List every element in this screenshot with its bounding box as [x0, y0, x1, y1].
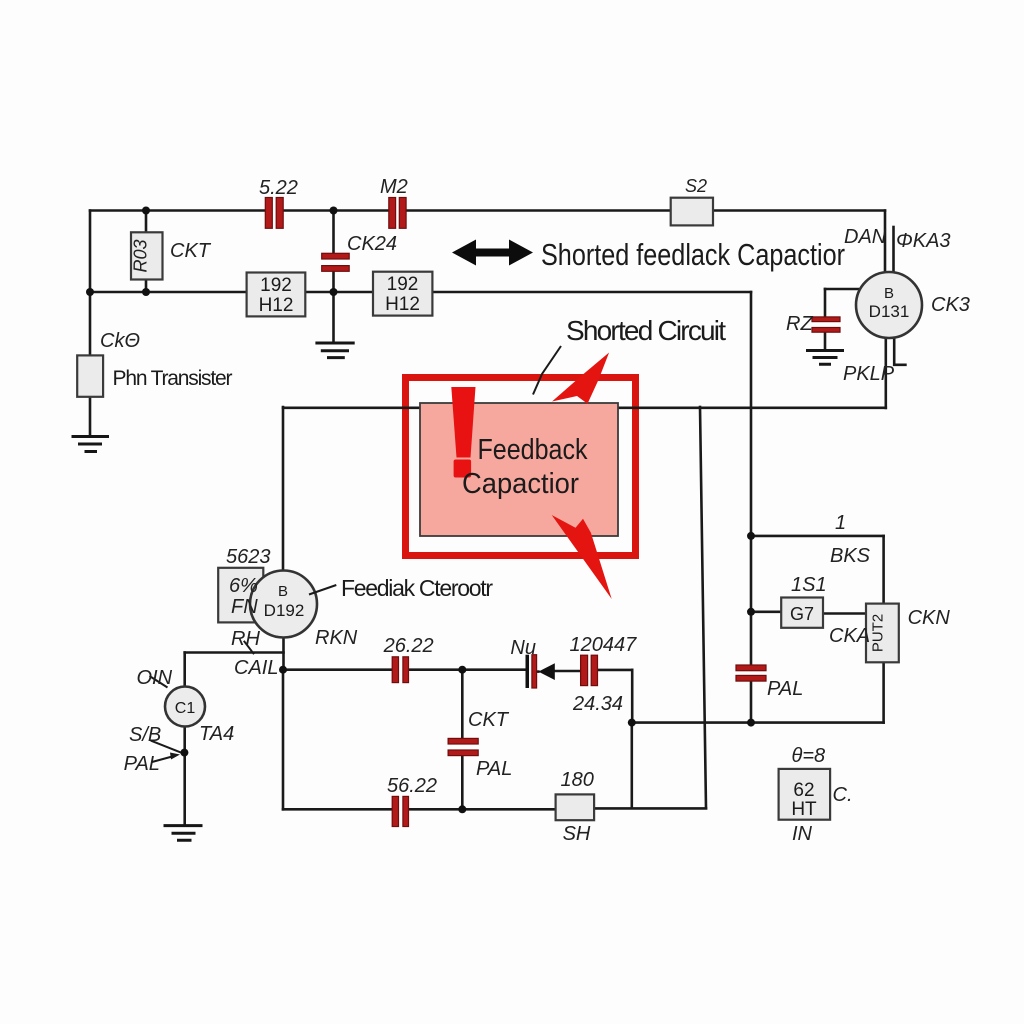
ground G4 (left branch) [164, 826, 203, 841]
GROUNDS [72, 343, 845, 840]
resistor R2 192 H12 [247, 273, 306, 317]
wire top rail left segment [90, 209, 264, 212]
wire C7 bottom lead x462 [461, 756, 464, 810]
svg-text:Feedback: Feedback [478, 434, 588, 466]
svg-text:RH: RH [231, 628, 260, 650]
svg-text:192: 192 [387, 274, 419, 295]
wire base stub U1 top [892, 227, 895, 276]
node second rail A [142, 288, 150, 296]
wire corner down to junction [631, 670, 634, 723]
wire diode output to corner [598, 669, 633, 672]
pointer line Feediak [309, 585, 336, 595]
capacitor C2 M2 [389, 198, 406, 229]
node top rail B [330, 207, 338, 215]
svg-text:S2: S2 [685, 176, 707, 196]
capacitor C4 RZ [812, 317, 840, 332]
svg-text:62: 62 [793, 780, 814, 801]
CAPACITORS (red plates) [265, 198, 840, 827]
svg-text:PKLP: PKLP [843, 363, 895, 385]
node left branch [180, 749, 188, 757]
wire left branch horizontal y652 [185, 651, 284, 654]
svg-text:M2: M2 [380, 176, 408, 198]
svg-text:PAL: PAL [767, 678, 803, 700]
box U5 PUT2 [866, 604, 899, 663]
svg-text:5.22: 5.22 [259, 177, 298, 199]
svg-text:5623: 5623 [226, 546, 271, 568]
pointer RH to wire [244, 641, 254, 654]
svg-text:1S1: 1S1 [791, 574, 827, 596]
node low rail mid [458, 666, 466, 674]
wire top rail segment 2 [282, 209, 389, 212]
svg-text:Capactior: Capactior [462, 468, 579, 500]
box U3 6% FN [218, 568, 263, 623]
wire second rail segment 3 [433, 291, 752, 294]
node bottom rail mid [458, 805, 466, 813]
box U6 62 HT [779, 769, 831, 820]
wire bottom rail segment 3 [594, 807, 706, 810]
wire RZ cap bottom lead [824, 332, 827, 350]
wire x283 vertical upper [282, 407, 285, 571]
wire cap C5 mid lead [555, 670, 581, 673]
wire top rail segment 3 [405, 209, 672, 212]
RESISTOR / IC BOXES [77, 198, 899, 821]
svg-text:D192: D192 [264, 601, 305, 620]
wire low rail segment 2 [409, 668, 463, 671]
svg-text:Nu: Nu [510, 637, 536, 659]
resistor R5 CK0 [77, 355, 103, 396]
wire bottom rail segment 2 [409, 808, 556, 811]
wire capacitor CK24 top lead [332, 211, 335, 254]
wire top rail segment 4 [713, 209, 885, 212]
svg-text:CK3: CK3 [931, 294, 970, 316]
wire CK0 top lead [89, 292, 92, 355]
node bus y723 [747, 719, 755, 727]
resistor R3 192 H12 [373, 272, 432, 316]
wire x283 vertical lower [282, 638, 285, 670]
wire mid horizontal y407 [283, 406, 886, 409]
pointer line to Shorted Circuit [533, 346, 561, 395]
svg-text:1: 1 [835, 512, 846, 534]
lightning bolt upper arrow [552, 353, 609, 404]
wire bottom branch y723 [632, 721, 884, 724]
svg-text:CKA: CKA [829, 625, 870, 647]
capacitor C8 120447 [581, 655, 598, 685]
svg-text:24.34: 24.34 [572, 693, 623, 715]
wire bus vertical x752 lower [750, 681, 753, 723]
box U4 G7 [781, 598, 823, 628]
capacitor C7 mid PAL [448, 738, 478, 755]
wire right drop to transistor U1 [884, 211, 887, 274]
wire capacitor CK24 bottom lead to ground [332, 271, 335, 343]
lightning bolt lower tail [552, 515, 612, 599]
svg-text:H12: H12 [259, 295, 294, 316]
capacitor C9 PAL (right bus) [736, 665, 766, 681]
wire bus vertical x752 upper [750, 292, 753, 665]
wire emitter drop below U1 [884, 338, 887, 409]
capacitor C10 56.22 [392, 796, 408, 826]
svg-text:Phn Transister: Phn Transister [113, 367, 233, 390]
transistor Q3 C1 [165, 687, 205, 727]
node y723 left [628, 719, 636, 727]
svg-text:RZ: RZ [786, 313, 813, 335]
svg-text:Feediak Cterootr: Feediak Cterootr [341, 575, 493, 601]
svg-text:CKT: CKT [468, 709, 510, 731]
wire C1 bottom lead to ground [183, 727, 186, 826]
wire C7 top lead x462 [461, 670, 464, 739]
wire PUT2 bottom lead [882, 662, 885, 722]
svg-text:Shorted feedlack Capactior: Shorted feedlack Capactior [541, 237, 845, 272]
svg-text:PAL: PAL [476, 758, 512, 780]
svg-text:PAL: PAL [124, 753, 160, 775]
svg-text:R03: R03 [131, 239, 151, 272]
svg-text:H12: H12 [385, 294, 420, 315]
ground G3 (below RZ) [806, 351, 844, 365]
wire resistor R1 top lead [145, 211, 148, 233]
node second rail B [330, 288, 338, 296]
CIRCLES [165, 272, 922, 727]
svg-text:192: 192 [260, 275, 292, 296]
node bus y536 [747, 532, 755, 540]
svg-text:TA4: TA4 [199, 723, 234, 745]
ground G1 (left, below CK0) [72, 437, 110, 452]
wire second rail segment 2 [306, 291, 374, 294]
svg-text:26.22: 26.22 [383, 635, 434, 657]
wire x703 long vertical [700, 407, 706, 808]
svg-text:D131: D131 [869, 302, 910, 321]
svg-text:56.22: 56.22 [387, 775, 437, 797]
wire node to G7 [751, 610, 781, 613]
wire left vertical [89, 211, 92, 293]
svg-text:BKS: BKS [830, 545, 871, 567]
wire G7 to PUT2 [823, 612, 866, 615]
wire second rail segment 1 [90, 291, 247, 294]
svg-text:B: B [278, 583, 288, 600]
resistor R6 180 [556, 794, 595, 820]
svg-text:CKT: CKT [170, 240, 212, 262]
pointer S/B [151, 741, 181, 753]
resistor R1 (vertical, CKT) [131, 232, 163, 279]
ground G2 (below CK24) [315, 343, 354, 358]
svg-text:180: 180 [561, 769, 594, 791]
svg-text:Shorted Circuit: Shorted Circuit [566, 315, 726, 346]
pointer OIN to C1 [150, 676, 168, 688]
wire junction down to bottom rail [630, 723, 633, 808]
node second rail left corner [86, 288, 94, 296]
svg-text:PUT2: PUT2 [869, 614, 886, 652]
warning inner pink box [420, 403, 618, 536]
capacitor C6 Nu (red plate) [532, 655, 537, 688]
svg-text:CkΘ: CkΘ [100, 330, 140, 352]
wire resistor R1 bottom lead [145, 280, 148, 293]
wire low rail segment 1 [283, 668, 392, 671]
pointer PAL left arrow [152, 756, 174, 762]
svg-text:CKN: CKN [908, 607, 951, 629]
svg-text:HT: HT [791, 799, 817, 820]
svg-text:B: B [884, 285, 894, 302]
wire low rail segment 3 [462, 668, 525, 671]
wire stub below transistor U1 [894, 339, 905, 365]
svg-text:G7: G7 [790, 604, 814, 624]
svg-text:OIN: OIN [137, 667, 173, 689]
node top rail A [142, 207, 150, 215]
wire x283 vertical to bottom rail [282, 670, 285, 810]
capacitor C3 CK24 [322, 253, 350, 271]
title double arrow [452, 240, 533, 266]
wire RZ branch horizontal [825, 288, 858, 291]
transistor U2 B D192 [250, 571, 317, 638]
svg-text:ΦKA3: ΦKA3 [896, 230, 951, 252]
svg-text:CAIL: CAIL [234, 657, 278, 679]
svg-text:C1: C1 [175, 700, 196, 717]
wire bottom rail segment 1 [283, 808, 392, 811]
node low rail left [279, 666, 287, 674]
svg-text:CK24: CK24 [347, 233, 397, 255]
svg-text:IN: IN [792, 823, 813, 845]
wire C1 top lead [183, 653, 186, 687]
capacitor C6 Nu (black plate) [526, 655, 530, 688]
transistor U1 B D131 [856, 272, 922, 338]
resistor R4 S2 [671, 198, 713, 226]
svg-text:FN: FN [231, 596, 258, 618]
warning outer red box [406, 378, 636, 556]
svg-text:C.: C. [833, 784, 853, 806]
svg-text:θ=8: θ=8 [792, 745, 826, 767]
exclamation mark [451, 387, 475, 478]
wire RZ cap top lead [824, 289, 827, 317]
node bus y612 [747, 608, 755, 616]
svg-text:120447: 120447 [570, 634, 638, 656]
diode D1 [538, 663, 554, 680]
svg-text:SH: SH [563, 823, 591, 845]
wire drop to PUT2 [882, 536, 885, 604]
capacitor C5 26.22 [392, 657, 408, 683]
capacitor C1 5.22 [265, 198, 283, 229]
svg-text:RKN: RKN [315, 627, 358, 649]
wire CK0 bottom lead to ground [89, 397, 92, 436]
wire branch y536 [751, 535, 884, 538]
svg-text:6%: 6% [229, 575, 258, 597]
svg-text:DAN: DAN [844, 226, 887, 248]
wire diode anode short [537, 670, 539, 673]
